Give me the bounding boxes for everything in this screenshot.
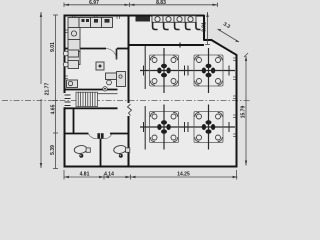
svg-text:15.79: 15.79 bbox=[241, 106, 247, 119]
right wall bbox=[236, 55, 238, 168]
svg-text:3.91: 3.91 bbox=[201, 22, 207, 32]
left outer dim bbox=[40, 12, 42, 84]
svg-text:8.83: 8.83 bbox=[156, 0, 166, 6]
kitchen counter top row bbox=[68, 18, 113, 28]
wall break squiggle bbox=[128, 104, 132, 116]
left wall lower bbox=[64, 107, 66, 167]
dim texts bbox=[45, 0, 247, 178]
bottom dim bbox=[64, 176, 238, 178]
booth row bbox=[152, 16, 196, 22]
middle room: desk 1 + chair bbox=[68, 50, 79, 57]
stairs bbox=[76, 92, 98, 106]
dim arrows bbox=[40, 4, 247, 179]
door leaf + arc (top room door) bbox=[116, 49, 118, 60]
stall door leaves bbox=[97, 133, 100, 139]
L-desk right side bbox=[106, 73, 125, 80]
small center table bbox=[96, 62, 104, 70]
office left partition upper bbox=[144, 46, 146, 89]
dark cabinet booth room bbox=[136, 17, 151, 22]
stall door arcs bbox=[89, 134, 98, 139]
window ticks top wall bbox=[73, 17, 120, 20]
top wall bbox=[64, 15, 205, 17]
svg-text:5.39: 5.39 bbox=[50, 145, 56, 155]
sink table w/ circle bbox=[67, 80, 78, 88]
interior wall office/left block bbox=[128, 16, 130, 167]
office left partition lower bbox=[144, 106, 146, 150]
exterior walls bbox=[64, 15, 238, 168]
workstation cluster C bbox=[144, 105, 185, 150]
middle room: desk 2 + chair bbox=[68, 61, 79, 69]
bench long line row2 bbox=[140, 126, 235, 128]
left inner dim bbox=[55, 15, 57, 169]
svg-text:14.25: 14.25 bbox=[177, 172, 190, 178]
chamfer wall bbox=[211, 40, 237, 56]
left wall upper bbox=[64, 15, 66, 94]
workstation cluster D bbox=[188, 105, 229, 150]
3.3 dim bbox=[218, 29, 240, 42]
booth hooks bbox=[153, 22, 201, 29]
handrail line bbox=[98, 93, 118, 95]
wall column circle bbox=[103, 87, 107, 91]
toilet top wall bbox=[64, 133, 89, 135]
right dim bbox=[245, 56, 247, 166]
top dim line bbox=[64, 4, 218, 6]
svg-text:9.01: 9.01 bbox=[50, 42, 56, 52]
3.91 dim bbox=[207, 12, 209, 45]
step wall right of booths bbox=[203, 15, 205, 41]
wall door tick bbox=[179, 43, 181, 48]
svg-text:4.14: 4.14 bbox=[104, 172, 114, 178]
svg-text:4.81: 4.81 bbox=[80, 172, 90, 178]
entrance steps bbox=[65, 95, 71, 106]
WC left bbox=[74, 145, 91, 158]
middle room bottom wall bbox=[64, 89, 118, 91]
stall divider bbox=[100, 139, 102, 167]
WC right bbox=[113, 145, 130, 158]
window ticks right wall bbox=[233, 58, 236, 137]
vestibule wall vertical bbox=[73, 108, 75, 134]
bottom wall bbox=[64, 166, 238, 168]
window ticks left wall bbox=[66, 30, 69, 79]
room divider wall top-left room bbox=[64, 48, 106, 50]
svg-text:4.65: 4.65 bbox=[50, 104, 56, 114]
workstation cluster A bbox=[144, 48, 185, 93]
svg-text:6.97: 6.97 bbox=[89, 0, 99, 6]
ledge wall bbox=[204, 39, 212, 41]
bench long line row1 bbox=[140, 70, 235, 72]
svg-text:21.77: 21.77 bbox=[45, 83, 51, 96]
workstation cluster B bbox=[188, 48, 229, 93]
building interior fill bbox=[64, 16, 237, 167]
centerline dash-dot bbox=[2, 100, 250, 102]
booth room bottom wall bbox=[130, 44, 205, 46]
hall wall bbox=[64, 107, 118, 109]
kitchen counter left column bbox=[68, 28, 80, 65]
